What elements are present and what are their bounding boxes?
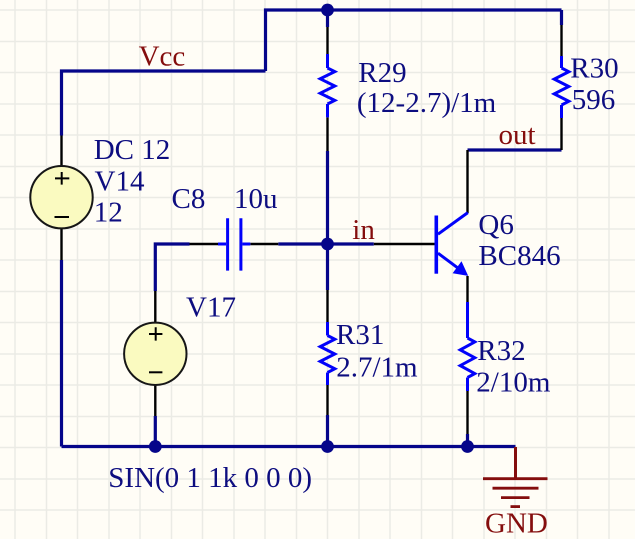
- wire node in to Q6 base: [328, 242, 374, 245]
- svg-text:Q6: Q6: [478, 209, 513, 241]
- junction ground rail / R31: [321, 440, 334, 453]
- wire C8 left to V17 top: [155, 244, 189, 291]
- resistor R30: [554, 56, 569, 118]
- pin R32 pin 2: [466, 391, 468, 434]
- wire Vcc rail to R30: [560, 10, 563, 25]
- ground symbol: [483, 447, 548, 507]
- svg-text:BC846: BC846: [478, 240, 560, 272]
- svg-text:10u: 10u: [234, 183, 278, 215]
- wire R29 bottom to node in: [326, 151, 329, 244]
- pin R29 pin 2: [326, 117, 328, 151]
- pin Q6 collector: [466, 150, 468, 213]
- resistor R32: [460, 302, 475, 391]
- svg-text:V14: V14: [95, 165, 145, 197]
- wire V17 bottom to ground rail: [154, 416, 157, 447]
- wire Vcc junction to R29: [326, 10, 329, 27]
- pin V14 pin 2: [60, 229, 62, 260]
- svg-text:R29: R29: [358, 57, 406, 89]
- svg-text:out: out: [499, 119, 536, 151]
- junction Vcc rail / R29: [321, 4, 334, 17]
- pin V17 pin 2: [154, 385, 156, 416]
- pin C8 pin 2: [250, 243, 278, 245]
- pin R31 pin 1: [326, 290, 328, 322]
- wire R31 bottom to ground rail: [326, 415, 329, 447]
- wire V14 bottom to ground rail: [60, 260, 63, 447]
- junction node in: [321, 238, 334, 251]
- pin C8 pin 1: [190, 243, 219, 245]
- wire R32 bottom to ground rail: [466, 434, 469, 447]
- svg-text:2.7/1m: 2.7/1m: [336, 351, 418, 383]
- transistor Q6: [436, 213, 468, 276]
- svg-text:C8: C8: [172, 183, 206, 215]
- svg-text:in: in: [352, 214, 375, 246]
- svg-text:R32: R32: [477, 335, 525, 367]
- pin V14 pin 1: [60, 136, 62, 167]
- wire node in to R31 top: [326, 244, 329, 290]
- svg-text:DC 12: DC 12: [94, 134, 171, 166]
- svg-text:2/10m: 2/10m: [476, 366, 551, 398]
- voltage source V17: [124, 323, 186, 385]
- wire Vcc top rail: [266, 10, 562, 71]
- resistor R31: [320, 322, 335, 385]
- wire ground rail: [62, 445, 516, 448]
- voltage source V14: [30, 166, 92, 228]
- svg-text:R31: R31: [336, 319, 384, 351]
- pin R31 pin 2: [326, 385, 328, 415]
- svg-text:GND: GND: [485, 508, 548, 539]
- svg-text:(12-2.7)/1m: (12-2.7)/1m: [357, 87, 497, 119]
- wire V14 top to Vcc rail: [62, 71, 266, 136]
- pin V17 pin 1: [154, 291, 156, 323]
- capacitor C8: [218, 218, 250, 270]
- pin R32 pin 1 / Q6 emitter lower: [466, 276, 468, 302]
- wire C8 right to node in: [278, 242, 327, 245]
- svg-text:R30: R30: [570, 53, 618, 85]
- pin Q6 base: [374, 243, 435, 245]
- svg-text:V17: V17: [186, 291, 236, 323]
- svg-text:SIN(0 1 1k 0 0 0): SIN(0 1 1k 0 0 0): [108, 462, 312, 494]
- junction ground rail / R32: [461, 440, 474, 453]
- svg-text:12: 12: [94, 196, 123, 228]
- wire out: [468, 148, 562, 151]
- resistor R29: [320, 54, 335, 117]
- junction ground rail / V17: [149, 440, 162, 453]
- pin R30 pin 2: [560, 118, 562, 150]
- pin R30 pin 1: [560, 25, 562, 56]
- svg-text:596: 596: [572, 84, 616, 116]
- pin R29 pin 1: [326, 27, 328, 54]
- svg-text:Vcc: Vcc: [139, 40, 186, 72]
